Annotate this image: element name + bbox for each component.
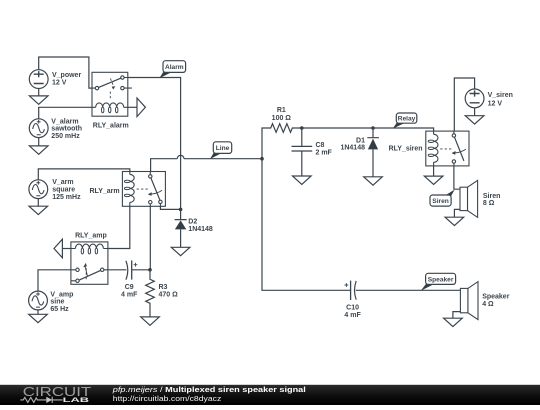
resistor R1 xyxy=(262,124,302,159)
ground xyxy=(54,239,62,258)
svg-text:1N4148: 1N4148 xyxy=(340,145,365,152)
relay RLY_siren xyxy=(426,131,469,166)
svg-text:Siren: Siren xyxy=(483,193,501,200)
ground xyxy=(137,98,145,117)
ground xyxy=(29,206,48,214)
svg-text:65 Hz: 65 Hz xyxy=(50,306,69,313)
wire V_power top to RLY_alarm switch xyxy=(39,57,92,88)
svg-text:C9: C9 xyxy=(125,284,134,291)
svg-text:C10: C10 xyxy=(346,305,359,312)
svg-text:1N4148: 1N4148 xyxy=(188,226,213,233)
capacitor C9 xyxy=(126,260,137,279)
svg-text:4 Ω: 4 Ω xyxy=(482,301,494,308)
svg-text:V_alarm: V_alarm xyxy=(51,118,78,125)
node flag Speaker xyxy=(421,273,456,291)
junction xyxy=(300,126,304,130)
wire V_alarm to ground xyxy=(38,138,40,146)
svg-text:http://circuitlab.com/c8dyacz: http://circuitlab.com/c8dyacz xyxy=(113,394,222,403)
svg-text:sawtooth: sawtooth xyxy=(51,126,82,133)
wire RLY_siren coil to ground xyxy=(433,166,435,176)
svg-text:V_amp: V_amp xyxy=(50,291,73,298)
voltage source V_power xyxy=(29,70,48,89)
wire node to D1 xyxy=(302,127,373,129)
wire V_power to ground xyxy=(38,89,40,96)
svg-text:12 V: 12 V xyxy=(488,100,503,107)
ground xyxy=(171,247,190,255)
wire RLY_arm coil to RLY_amp coil xyxy=(108,206,130,248)
svg-text:Siren: Siren xyxy=(432,198,449,205)
voltage source V_arm xyxy=(29,180,48,199)
svg-text:470 Ω: 470 Ω xyxy=(159,291,179,298)
svg-text:sine: sine xyxy=(50,299,64,306)
CircuitLab logo xyxy=(20,385,91,404)
wire Speaker to ground xyxy=(453,312,461,319)
wire RLY_alarm NO to Alarm node xyxy=(128,78,181,210)
svg-text:R1: R1 xyxy=(277,107,286,114)
junction xyxy=(260,157,264,161)
svg-text:4 mF: 4 mF xyxy=(344,312,361,319)
wire V_arm to RLY_arm coil xyxy=(38,169,130,180)
wire RLY_siren NO to Siren xyxy=(454,166,460,189)
relay RLY_arm xyxy=(122,172,165,207)
ground xyxy=(364,177,383,185)
svg-text:D2: D2 xyxy=(188,219,197,226)
svg-text:Relay: Relay xyxy=(398,116,416,123)
ground xyxy=(29,96,48,104)
wire RLY_alarm coil to ground xyxy=(128,106,137,108)
junction xyxy=(179,208,183,212)
svg-text:12 V: 12 V xyxy=(52,79,67,86)
ground xyxy=(424,176,443,184)
svg-text:R3: R3 xyxy=(159,284,168,291)
svg-text:100 Ω: 100 Ω xyxy=(272,115,292,122)
svg-text:V_power: V_power xyxy=(52,72,81,79)
capacitor C8 xyxy=(292,128,313,176)
wire Line wire xyxy=(151,159,262,172)
ground xyxy=(141,317,160,325)
wire RLY_arm NO to D2 node xyxy=(160,206,180,209)
junction xyxy=(148,268,152,272)
wire RLY_amp to C9 xyxy=(108,269,127,271)
wire V_alarm top to RLY_alarm coil xyxy=(39,107,92,119)
svg-text:pfp.meijers / Multiplexed sire: pfp.meijers / Multiplexed siren speaker … xyxy=(112,385,306,394)
relay RLY_amp xyxy=(71,242,108,284)
ground xyxy=(29,314,48,322)
wire RLY_amp coil to ground xyxy=(62,248,71,250)
svg-text:125 mHz: 125 mHz xyxy=(52,194,81,201)
wire V_amp to RLY_amp switch xyxy=(38,270,71,291)
wire C9 to node xyxy=(132,269,150,271)
node flag Alarm xyxy=(159,61,185,78)
svg-text:RLY_alarm: RLY_alarm xyxy=(93,122,129,129)
svg-text:D1: D1 xyxy=(356,137,365,144)
wire V_amp to ground xyxy=(37,310,39,314)
wire RLY_arm NC to R3 node xyxy=(149,206,151,269)
speaker Siren xyxy=(460,180,478,217)
diode D2 1N4148 xyxy=(175,209,187,247)
wire V_siren to ground xyxy=(474,108,476,116)
wire node to C10 xyxy=(262,159,350,291)
svg-text:4 mF: 4 mF xyxy=(121,291,138,298)
svg-text:square: square xyxy=(52,187,75,194)
ground xyxy=(293,176,312,184)
ground xyxy=(444,318,463,326)
ground xyxy=(445,217,464,225)
svg-text:Speaker: Speaker xyxy=(482,294,510,301)
speaker Speaker xyxy=(460,282,478,320)
svg-text:Speaker: Speaker xyxy=(428,276,454,283)
resistor R3 xyxy=(146,270,155,317)
svg-text:C8: C8 xyxy=(316,142,325,149)
svg-text:RLY_arm: RLY_arm xyxy=(90,188,120,195)
svg-text:Line: Line xyxy=(216,145,230,152)
svg-text:V_arm: V_arm xyxy=(52,179,73,186)
ground xyxy=(465,116,484,124)
svg-text:250 mHz: 250 mHz xyxy=(51,133,80,140)
junction xyxy=(371,126,375,130)
node flag Relay xyxy=(393,113,417,129)
wire C10 to Speaker xyxy=(356,289,461,291)
voltage source V_alarm xyxy=(29,119,48,138)
voltage source V_siren xyxy=(465,89,484,108)
svg-text:8 Ω: 8 Ω xyxy=(483,200,495,207)
wire Siren to ground xyxy=(454,209,460,217)
svg-text:Alarm: Alarm xyxy=(165,64,184,71)
svg-text:RLY_amp: RLY_amp xyxy=(75,233,107,240)
svg-text:V_siren: V_siren xyxy=(488,92,513,99)
node flag Line xyxy=(210,142,232,159)
svg-text:RLY_siren: RLY_siren xyxy=(389,145,423,152)
node flag Siren xyxy=(430,190,455,207)
wire V_arm to ground xyxy=(37,199,39,207)
wire hop xyxy=(177,155,184,158)
voltage source V_amp xyxy=(29,291,48,310)
ground xyxy=(29,146,48,154)
relay RLY_alarm xyxy=(92,72,132,116)
wire D1 node to RLY_siren coil xyxy=(373,128,434,131)
svg-text:2 mF: 2 mF xyxy=(316,149,333,156)
diode D1 1N4148 xyxy=(367,128,379,177)
wire V_siren to RLY_siren switch xyxy=(454,78,474,131)
capacitor C10 xyxy=(345,281,357,300)
svg-text:LAB: LAB xyxy=(63,397,90,404)
